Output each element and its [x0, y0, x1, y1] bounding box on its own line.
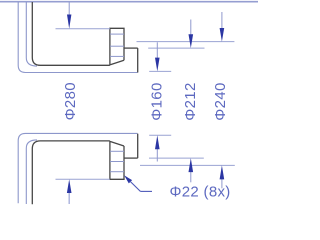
dim ext line phi240 top — [137, 41, 235, 43]
chamfer top — [110, 60, 124, 65]
box thread lines top (blue) — [110, 33, 124, 35]
svg-text:Φ160: Φ160 — [149, 82, 166, 120]
dim lead + arrow phi240 top — [221, 12, 223, 29]
chamfer bottom — [110, 141, 124, 146]
top border line — [0, 1, 258, 3]
right face top — [137, 48, 139, 72]
bolt hole box bottom — [110, 141, 124, 179]
step line top — [124, 47, 138, 49]
dim ext line phi280 top — [56, 28, 110, 30]
dim lead + arrow phi160 top — [156, 42, 158, 58]
dim ext line phi240 bottom — [140, 164, 235, 166]
svg-text:Φ240: Φ240 — [212, 82, 229, 120]
dim lead + arrow phi240 bottom — [221, 179, 223, 189]
dim lead + arrow phi212 top — [190, 20, 192, 36]
dim ext line phi212 top — [148, 47, 204, 49]
dim lead + arrow phi212 bottom — [190, 171, 192, 182]
dim ext line phi160 bottom — [149, 134, 171, 136]
bolt hole box top — [110, 28, 124, 65]
step line bottom — [124, 157, 138, 159]
shell inner wall (blue) bottom — [26, 140, 37, 204]
leader to bolt hole — [124, 175, 132, 183]
shell outer wall (blue) bottom — [18, 133, 137, 203]
flange outline (dark) top — [32, 2, 110, 65]
svg-text:Φ280: Φ280 — [62, 82, 79, 120]
dim lead + arrow phi280 bottom — [68, 192, 70, 204]
svg-text:Φ212: Φ212 — [182, 82, 199, 120]
svg-text:Φ22 (8x): Φ22 (8x) — [170, 184, 231, 201]
dim ext line phi280 bottom — [56, 178, 110, 180]
dim ext line phi212 bottom — [149, 157, 204, 159]
shell inner wall (blue) top — [26, 2, 37, 66]
flange outline (dark) bottom — [32, 141, 110, 204]
box thread lines bottom (blue) — [110, 150, 124, 152]
dim lead + arrow phi160 bottom — [156, 149, 158, 162]
dim ext line phi160 top — [149, 70, 171, 72]
shell outer wall (blue) top — [18, 2, 137, 73]
dim lead + arrow phi280 top — [68, 2, 70, 15]
right face bottom — [137, 134, 139, 158]
